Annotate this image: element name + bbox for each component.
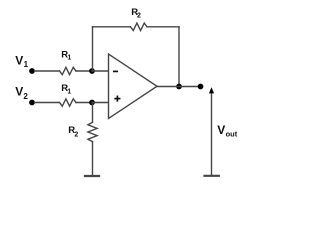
wire	[178, 27, 180, 87]
node V1	[29, 68, 35, 74]
node output	[198, 84, 204, 90]
junction B	[176, 84, 182, 90]
resistor R2	[131, 23, 148, 30]
wire	[92, 102, 109, 104]
wire	[35, 70, 60, 72]
label R2	[131, 7, 141, 19]
wire	[76, 70, 92, 72]
label R2	[68, 125, 78, 138]
junction D	[89, 100, 95, 106]
resistor R1 second	[60, 99, 77, 106]
inverting input marker	[114, 70, 117, 72]
wire	[93, 26, 131, 28]
wire	[92, 70, 109, 72]
junction A	[89, 68, 95, 74]
label V1	[15, 54, 28, 70]
wire	[92, 103, 94, 123]
Vout arrow	[209, 87, 214, 175]
svg-text:V: V	[217, 123, 225, 137]
ground	[85, 175, 99, 177]
ground reference bar	[205, 175, 219, 177]
resistor R2 grounded	[88, 122, 97, 141]
node V2	[29, 100, 35, 106]
label R1	[61, 49, 71, 61]
svg-text:2: 2	[74, 132, 78, 139]
svg-text:1: 1	[67, 89, 71, 96]
label R1	[61, 83, 71, 95]
wire	[35, 102, 60, 104]
svg-text:2: 2	[137, 12, 141, 19]
svg-text:V: V	[15, 85, 23, 99]
wire	[92, 27, 94, 71]
wire	[92, 142, 94, 175]
svg-text:1: 1	[67, 55, 71, 62]
label Vout	[217, 123, 238, 138]
non-inverting input marker	[115, 96, 119, 100]
svg-text:1: 1	[24, 60, 29, 69]
svg-text:V: V	[15, 54, 23, 68]
wire	[147, 26, 179, 28]
label V2	[15, 85, 28, 101]
resistor R1	[60, 67, 77, 74]
svg-text:out: out	[226, 129, 238, 138]
op-amp U1	[109, 54, 158, 119]
wire	[157, 86, 201, 88]
wire	[76, 102, 92, 104]
svg-text:2: 2	[23, 92, 28, 101]
